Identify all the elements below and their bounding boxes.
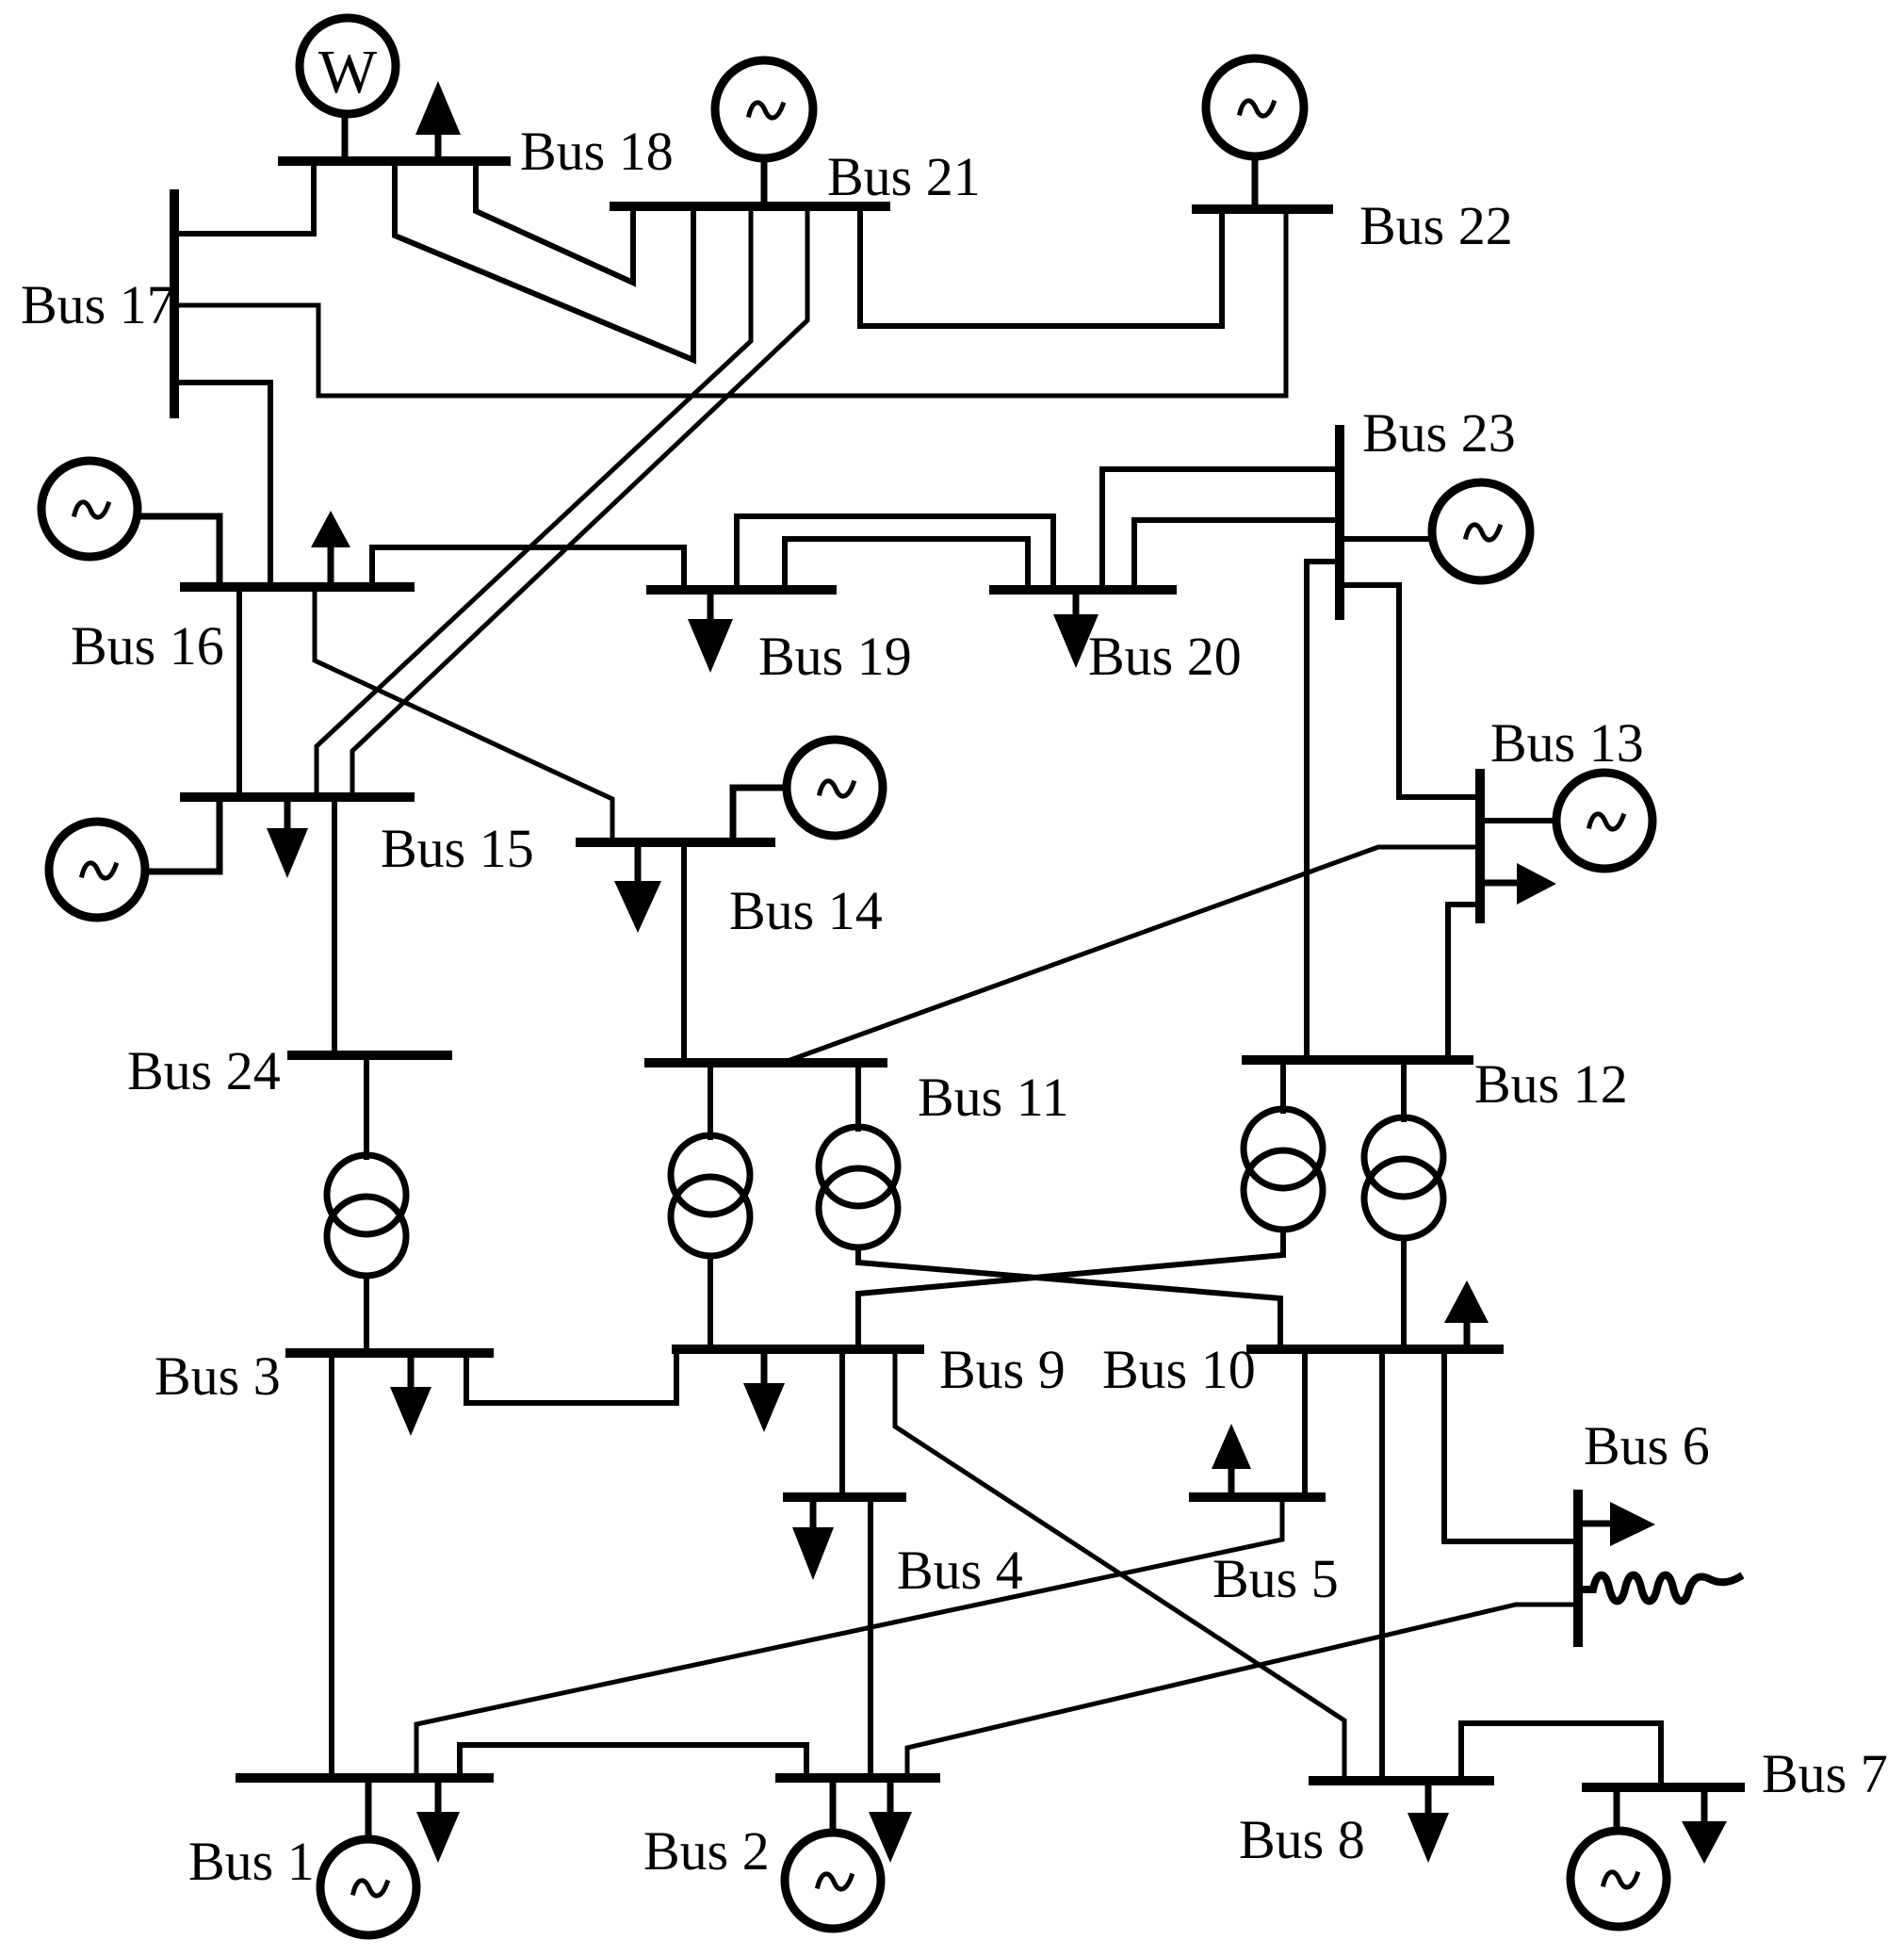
bus 20 bar xyxy=(994,585,1172,595)
load arrow bus 14 (down) xyxy=(614,842,661,933)
wire 10-6 xyxy=(1444,1349,1578,1541)
svg-text:Bus 13: Bus 13 xyxy=(1490,712,1644,774)
load arrow bus 5 (up) xyxy=(1212,1424,1251,1497)
bus 13 bar (vertical) xyxy=(1475,774,1485,919)
bus 23 bar (vertical) xyxy=(1335,430,1344,615)
bus 6 bar (vertical) xyxy=(1573,1494,1583,1642)
generator W (wind) on bus 18 xyxy=(300,18,396,161)
generator G22 xyxy=(1206,58,1304,209)
bus 10 bar xyxy=(1251,1345,1499,1354)
wire 17-18 xyxy=(174,161,314,234)
wire 16-17 xyxy=(174,383,270,587)
load arrow bus 4 (down) xyxy=(792,1497,834,1580)
wire 15-21 circuit 1 xyxy=(317,206,751,797)
load arrow bus 8 (down) xyxy=(1408,1781,1449,1863)
load arrow bus 6 (right) xyxy=(1583,1502,1655,1546)
wire 1-3 xyxy=(329,1353,334,1778)
bus 5 bar xyxy=(1194,1492,1321,1502)
svg-text:Bus 4: Bus 4 xyxy=(897,1540,1023,1601)
wire 14-11 xyxy=(681,842,687,1063)
wire 5-1 (diagonal) xyxy=(416,1497,1282,1778)
load arrow bus 1 (down) xyxy=(416,1778,460,1863)
bus 11 bar xyxy=(649,1058,883,1068)
wire 23-13 xyxy=(1343,585,1480,797)
wire 21-22 xyxy=(860,206,1222,326)
wire 9-4 xyxy=(839,1349,845,1497)
svg-text:Bus 7: Bus 7 xyxy=(1762,1743,1888,1804)
load arrow bus 15 (down) xyxy=(267,797,308,878)
svg-text:Bus 5: Bus 5 xyxy=(1212,1548,1339,1609)
bus 22 bar xyxy=(1196,204,1328,214)
load arrow bus 18 (up) xyxy=(415,81,461,161)
svg-text:Bus 18: Bus 18 xyxy=(520,121,674,182)
load arrow bus 2 (down) xyxy=(869,1778,912,1863)
generator G13 xyxy=(1485,773,1652,869)
generator G15 xyxy=(49,797,220,918)
load arrow bus 7 (down) xyxy=(1682,1787,1727,1864)
generator G14 xyxy=(733,740,883,842)
svg-text:Bus 21: Bus 21 xyxy=(827,146,981,207)
svg-text:Bus 9: Bus 9 xyxy=(939,1339,1066,1400)
wire 3-9 xyxy=(466,1353,676,1403)
wire 20-23 circuit 2 xyxy=(1134,520,1340,590)
wire 10-5 xyxy=(1302,1349,1308,1497)
bus 7 bar xyxy=(1587,1783,1740,1792)
svg-text:Bus 22: Bus 22 xyxy=(1359,195,1513,256)
generator G23 xyxy=(1343,482,1530,580)
generator G7 xyxy=(1570,1787,1667,1927)
bus 21 bar xyxy=(614,202,886,211)
svg-text:Bus 19: Bus 19 xyxy=(758,626,912,687)
bus 14 bar xyxy=(580,838,771,847)
svg-text:Bus 24: Bus 24 xyxy=(127,1040,281,1101)
svg-text:Bus 6: Bus 6 xyxy=(1584,1415,1710,1476)
transformer T12-10 xyxy=(1364,1060,1443,1349)
bus 4 bar xyxy=(788,1492,902,1502)
generator G21 xyxy=(715,60,813,206)
svg-text:Bus 1: Bus 1 xyxy=(188,1831,315,1892)
generator G2 xyxy=(785,1778,881,1929)
wire 19-20 circuit 2 xyxy=(785,539,1028,590)
bus 18 bar xyxy=(283,156,506,166)
transformer T11-10 xyxy=(819,1063,1280,1349)
wire 7-8 xyxy=(1461,1723,1661,1787)
svg-text:Bus 3: Bus 3 xyxy=(155,1345,281,1407)
bus 17 bar (vertical) xyxy=(170,194,179,414)
wire 16-14 xyxy=(315,587,612,842)
svg-text:Bus 11: Bus 11 xyxy=(918,1067,1069,1128)
load arrow bus 10 (up) xyxy=(1444,1280,1489,1349)
wire 19-20 circuit 1 xyxy=(737,516,1053,590)
wire 18-21 circuit 2 xyxy=(395,161,693,360)
bus 8 bar xyxy=(1313,1776,1489,1785)
bus 9 bar xyxy=(676,1345,919,1354)
wire 10-8 xyxy=(1379,1349,1385,1781)
svg-text:Bus 15: Bus 15 xyxy=(381,818,534,879)
bus 15 bar xyxy=(185,792,410,802)
svg-text:Bus 20: Bus 20 xyxy=(1088,626,1242,687)
wire 15-24 xyxy=(332,797,337,1055)
wire 15-16 xyxy=(236,587,242,797)
transformer T3-24 xyxy=(327,1055,406,1353)
svg-text:W: W xyxy=(318,38,378,106)
bus 12 bar xyxy=(1246,1055,1469,1065)
svg-text:Bus 16: Bus 16 xyxy=(71,615,224,676)
generator G16 xyxy=(41,461,220,587)
svg-text:Bus 2: Bus 2 xyxy=(643,1820,770,1882)
wire 1-2 xyxy=(460,1745,806,1778)
svg-text:Bus 17: Bus 17 xyxy=(21,274,174,335)
svg-text:Bus 10: Bus 10 xyxy=(1102,1339,1256,1400)
wire 16-19 xyxy=(372,547,684,590)
bus 1 bar xyxy=(240,1773,489,1783)
wire 23-12 xyxy=(1307,562,1340,1060)
wire 4-2 xyxy=(868,1497,873,1778)
generator G1 xyxy=(320,1778,416,1935)
bus 16 bar xyxy=(185,582,410,592)
wire 15-21 circuit 2 xyxy=(352,206,807,797)
transformer T12-9 xyxy=(858,1060,1323,1349)
load arrow bus 9 (down) xyxy=(743,1349,785,1432)
wire 18-21 circuit 1 xyxy=(476,161,633,283)
load arrow bus 13 (right) xyxy=(1485,863,1556,905)
bus 3 bar xyxy=(290,1348,489,1358)
transformer T11-9 xyxy=(671,1063,750,1349)
svg-text:Bus 8: Bus 8 xyxy=(1239,1809,1365,1870)
svg-text:Bus 14: Bus 14 xyxy=(729,880,883,941)
bus 19 bar xyxy=(651,585,832,595)
wire 12-13 xyxy=(1448,905,1480,1060)
load arrow bus 16 (up) xyxy=(311,511,350,587)
reactor (cable) on bus 6 xyxy=(1583,1575,1739,1602)
load arrow bus 20 (down) xyxy=(1053,590,1098,668)
svg-text:Bus 12: Bus 12 xyxy=(1474,1053,1628,1115)
svg-text:Bus 23: Bus 23 xyxy=(1362,402,1516,464)
wire 2-6 (diagonal) xyxy=(907,1605,1578,1778)
wire 9-8 xyxy=(895,1349,1344,1781)
bus 24 bar xyxy=(292,1051,448,1060)
wire 20-23 circuit 1 xyxy=(1102,469,1340,590)
bus 2 bar xyxy=(780,1773,936,1783)
load arrow bus 3 (down) xyxy=(390,1353,431,1436)
load arrow bus 19 (down) xyxy=(688,590,733,673)
wire 11-13 (diagonal) xyxy=(788,847,1480,1061)
wire 17-22 (long) xyxy=(174,209,1286,396)
